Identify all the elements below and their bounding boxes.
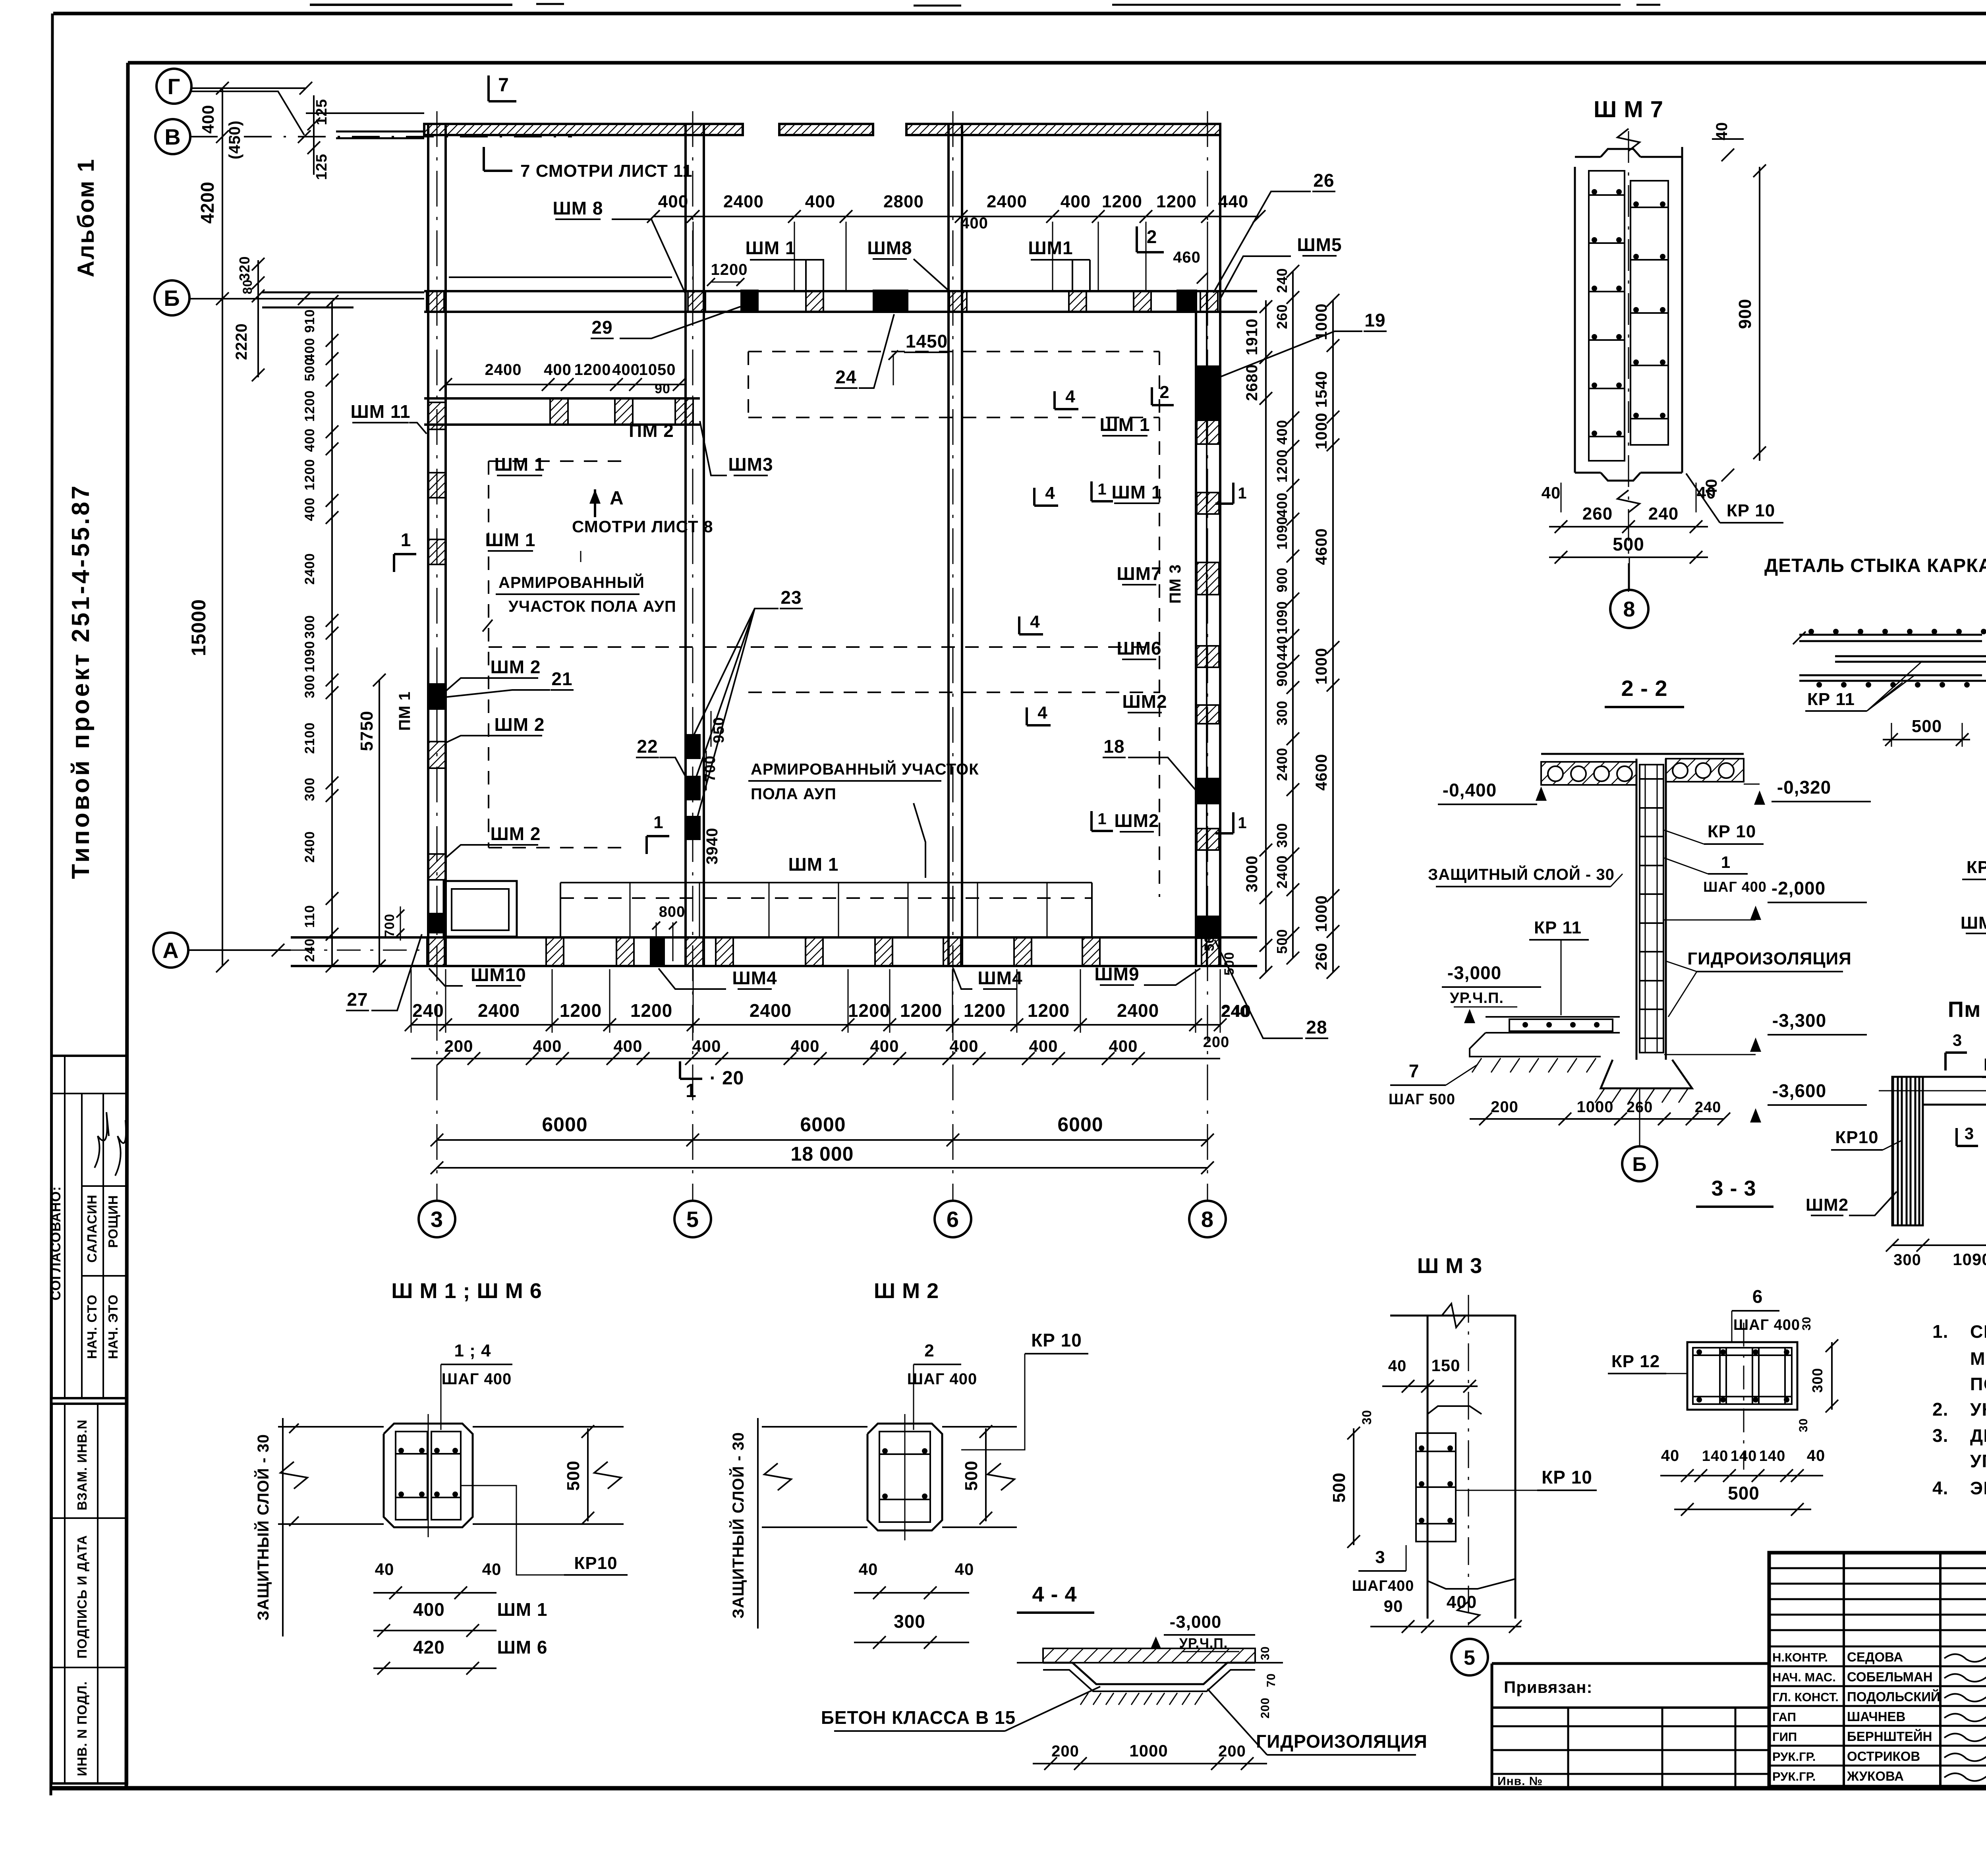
svg-text:1090: 1090 [1274,601,1290,634]
plan: wall axis 8 [1195,291,1197,966]
detail PM1: U-shape [1892,1077,1923,1225]
svg-text:2400: 2400 [1274,855,1290,889]
svg-text:1: 1 [686,1080,697,1101]
section 2-2: axis circle B [1622,1146,1657,1181]
svg-text:460: 460 [1173,249,1201,266]
svg-text:ШАГ 500: ШАГ 500 [1389,1091,1455,1108]
svg-text:ШМ3: ШМ3 [728,454,773,475]
plan: mid wall PM2 [424,397,700,400]
svg-text:1910: 1910 [1243,319,1261,355]
svg-text:1090: 1090 [1274,516,1290,550]
svg-text:300: 300 [1893,1251,1921,1269]
plan: wall axis 3 [427,124,429,966]
svg-text:125: 125 [313,154,330,180]
left dim 4200/400 [222,88,223,299]
svg-text:1200: 1200 [1274,449,1290,483]
svg-text:1200: 1200 [574,361,611,379]
plan axis circles left [156,69,191,104]
svg-text:910: 910 [302,309,317,333]
svg-text:ШМ6: ШМ6 [1117,638,1161,659]
svg-text:1: 1 [1238,485,1247,502]
section 2-2: bottom dims [1470,1118,1724,1120]
svg-text:Ш М 2: Ш М 2 [874,1279,939,1303]
plan: hatch blocks on B wall [427,291,444,312]
svg-text:Н.КОНТР.: Н.КОНТР. [1772,1650,1828,1664]
detail ShM7: right dim 900 + 40s [1759,167,1760,461]
right dim col 2 [1292,271,1294,958]
svg-text:1200: 1200 [1102,192,1142,211]
svg-text:500: 500 [1613,534,1644,554]
svg-text:1200: 1200 [1028,1000,1070,1021]
svg-text:40: 40 [375,1560,394,1578]
svg-text:260: 260 [1313,943,1330,970]
svg-text:7: 7 [498,75,509,96]
svg-text:500: 500 [302,357,317,381]
svg-text:30: 30 [1797,1418,1810,1432]
detail 3-3 cut: rebar rect [1687,1342,1797,1410]
svg-text:1000: 1000 [1313,648,1330,685]
svg-text:500: 500 [962,1461,981,1491]
svg-text:Б: Б [1632,1153,1647,1175]
svg-text:900: 900 [1274,567,1290,592]
svg-text:2220: 2220 [233,323,250,360]
svg-text:ВЗАМ. ИНВ.N: ВЗАМ. ИНВ.N [75,1419,89,1510]
svg-text:1 ; 4: 1 ; 4 [454,1341,491,1360]
svg-text:В: В [164,124,181,149]
svg-text:260: 260 [1274,304,1290,329]
svg-text:2800: 2800 [883,192,924,211]
svg-text:ПМ 2: ПМ 2 [629,420,674,441]
svg-text:Типовой проект 251-4-55.87: Типовой проект 251-4-55.87 [67,483,95,879]
svg-text:ПОЛА АУП: ПОЛА АУП [751,785,837,803]
svg-text:900: 900 [1274,661,1290,686]
svg-text:КР 10: КР 10 [1727,501,1775,520]
svg-text:Ш М 7: Ш М 7 [1594,97,1663,122]
svg-text:5: 5 [686,1207,699,1232]
approval signatures [95,1112,109,1168]
svg-text:1050: 1050 [639,361,676,379]
svg-text:80: 80 [240,279,255,294]
svg-text:150: 150 [1431,1356,1460,1375]
svg-text:А: А [162,938,179,963]
svg-text:НАЧ. МАС.: НАЧ. МАС. [1772,1670,1836,1684]
plan: hatch blocks on mid wall [550,398,568,425]
svg-text:200: 200 [1491,1098,1518,1116]
svg-text:УГОЛКОМ НА ВСЮ ВЫСОТУ , ПО: УГОЛКОМ НА ВСЮ ВЫСОТУ , ПО ДЕТАЛИ „А’ НА… [1970,1451,1986,1471]
svg-text:СМОТРИ ЛИСТ 8: СМОТРИ ЛИСТ 8 [572,517,713,536]
svg-text:ШАГ 400: ШАГ 400 [1703,879,1767,895]
svg-text:-3,600: -3,600 [1772,1080,1826,1101]
svg-text:6000: 6000 [1057,1113,1103,1136]
svg-text:6: 6 [1752,1286,1763,1307]
plan: blocks on axis8 wall [1197,365,1219,421]
svg-text:22: 22 [637,736,658,757]
svg-text:КР 11: КР 11 [1534,918,1582,937]
svg-text:2400: 2400 [750,1000,792,1021]
svg-text:1200: 1200 [302,459,317,491]
left dim 15000 [222,299,223,966]
svg-text:ШМ 1: ШМ 1 [1112,482,1162,502]
svg-text:КР 10: КР 10 [1542,1467,1592,1488]
svg-text:ГАП: ГАП [1772,1710,1796,1724]
svg-text:ШМ 6: ШМ 6 [497,1637,548,1658]
plan: B wall left stub [262,292,424,294]
title block outer [1769,1553,1986,1787]
svg-text:300: 300 [302,674,317,698]
svg-text:400: 400 [805,192,835,211]
svg-text:1000: 1000 [1313,413,1330,450]
svg-text:Альбом 1: Альбом 1 [73,158,99,277]
svg-text:ШМ2: ШМ2 [1114,810,1159,831]
svg-text:18: 18 [1103,736,1124,757]
svg-text:400: 400 [949,1037,978,1055]
plan: blocks on A wall [427,937,444,966]
svg-text:Инв. №: Инв. № [1497,1775,1543,1788]
section 4 marks [1053,391,1056,409]
plan: axis B line [189,298,424,299]
svg-text:ПМ 3: ПМ 3 [1167,564,1184,603]
svg-text:15000: 15000 [187,599,210,656]
top dim under B wall left [446,384,686,385]
svg-text:1200: 1200 [630,1000,672,1021]
svg-text:400: 400 [199,104,217,133]
svg-text:1: 1 [1097,810,1107,828]
svg-text:40: 40 [1542,483,1561,502]
svg-text:ШМ10: ШМ10 [471,964,526,985]
svg-text:-0,400: -0,400 [1443,780,1497,800]
title block left column grid [1843,1553,1845,1787]
svg-text:200: 200 [1218,1743,1246,1760]
svg-text:400: 400 [1061,192,1091,211]
svg-text:200: 200 [1051,1743,1079,1760]
svg-text:Ш М 3: Ш М 3 [1417,1254,1482,1278]
svg-text:ШАГ 400: ШАГ 400 [442,1370,512,1388]
svg-text:5: 5 [1464,1646,1476,1669]
svg-text:400: 400 [1029,1037,1058,1055]
svg-text:ШМ 1: ШМ 1 [495,454,545,475]
svg-text:ШМ9: ШМ9 [1094,964,1139,984]
svg-text:СЕДОВА: СЕДОВА [1847,1650,1903,1664]
bottom section mark 1 and 20 [679,1061,681,1079]
svg-text:30: 30 [1259,1646,1272,1660]
svg-text:900: 900 [1735,299,1755,329]
svg-text:260: 260 [1582,504,1613,524]
svg-text:1000: 1000 [1129,1741,1168,1760]
svg-text:400: 400 [1274,492,1290,517]
plan: V wall left stub [336,131,424,133]
drawing frame [128,61,1986,65]
svg-text:6000: 6000 [800,1113,846,1136]
svg-text:ШМ 1: ШМ 1 [497,1599,548,1620]
svg-text:28: 28 [1306,1017,1327,1037]
svg-text:НАЧ. СТО: НАЧ. СТО [85,1294,99,1359]
svg-text:ШМ2: ШМ2 [1122,691,1167,712]
svg-text:26: 26 [1313,170,1334,191]
svg-text:240: 240 [1274,268,1290,293]
svg-text:1000: 1000 [1313,895,1330,932]
svg-text:ИНВ. N ПОДЛ.: ИНВ. N ПОДЛ. [75,1681,89,1776]
svg-text:400: 400 [613,1037,642,1055]
label 7 smotri list 11 [483,147,485,171]
plan: dashed AUP region upper [748,351,1159,352]
svg-text:2400: 2400 [987,192,1027,211]
plan: wall axis 5 [684,124,687,966]
svg-text:ШАГ 400: ШАГ 400 [907,1370,978,1388]
svg-text:400: 400 [413,1599,445,1620]
svg-text:21: 21 [551,668,572,689]
svg-text:23: 23 [780,587,802,608]
svg-text:700: 700 [702,755,719,782]
svg-text:27: 27 [347,989,368,1010]
svg-text:КР 10: КР 10 [1708,822,1756,841]
svg-text:УР.Ч.П.: УР.Ч.П. [1450,990,1504,1007]
svg-text:ГИП: ГИП [1772,1730,1797,1744]
svg-text:800: 800 [659,904,685,920]
svg-text:40: 40 [1807,1447,1826,1464]
svg-text:2400: 2400 [302,553,317,585]
svg-text:40: 40 [1661,1447,1680,1464]
svg-text:4 - 4: 4 - 4 [1032,1582,1077,1606]
svg-text:РУК.ГР.: РУК.ГР. [1772,1750,1816,1764]
svg-text:90: 90 [655,381,670,396]
svg-text:40: 40 [1388,1357,1407,1375]
svg-text:2.: 2. [1932,1399,1948,1420]
svg-text:ЗАЩИТНЫЙ СЛОЙ - 30: ЗАЩИТНЫЙ СЛОЙ - 30 [729,1432,747,1619]
svg-text:2: 2 [1159,383,1169,402]
archive table (vzam inv / podpis i data / inv n podl) [52,1404,127,1783]
svg-text:1: 1 [401,529,411,550]
detail 4-4: floor slab [1043,1648,1255,1663]
svg-text:420: 420 [413,1637,445,1658]
detail ShM3: dim 500 left [1353,1428,1354,1545]
svg-text:1: 1 [1238,814,1247,832]
svg-text:30: 30 [1800,1316,1813,1330]
svg-text:30: 30 [1360,1410,1374,1425]
section mark 2 mid [1151,387,1153,405]
svg-text:8: 8 [1201,1207,1214,1232]
svg-text:400: 400 [302,497,317,521]
svg-text:300: 300 [302,615,317,639]
detail ShM7: axis circle 8 [1610,590,1648,628]
dim row 2 (200/400 series) [411,1058,1220,1059]
svg-text:ЭКСПЛИКАЦИЯ ОТВЕРСТИЙ ДАНА: ЭКСПЛИКАЦИЯ ОТВЕРСТИЙ ДАНА НА ЛИ:ТЕ 7. [1970,1478,1986,1498]
svg-text:СОГЛАСОВАНО:: СОГЛАСОВАНО: [48,1186,64,1300]
dim row 3 (6000s) [437,1139,1207,1141]
svg-text:ШМ8: ШМ8 [1961,913,1986,933]
section 2-2: top slab hatched [1541,753,1744,755]
svg-text:1200: 1200 [711,261,748,278]
svg-text:40: 40 [1697,483,1716,502]
svg-text:240: 240 [1648,504,1679,524]
svg-text:4: 4 [1030,612,1040,632]
svg-text:А: А [610,488,624,509]
svg-text:4: 4 [1037,703,1047,723]
svg-text:ШМ 11: ШМ 11 [351,401,411,422]
plan: axis V line [190,136,572,137]
label 1 ShM1 1 row [1090,481,1093,501]
svg-text:400: 400 [790,1037,819,1055]
detail styka: bars [1799,634,1982,636]
svg-text:24: 24 [835,367,856,387]
svg-text:АРМИРОВАННЫЙ УЧАСТОК: АРМИРОВАННЫЙ УЧАСТОК [751,760,979,778]
right dim col 1 [1265,300,1267,972]
svg-text:300: 300 [894,1611,925,1632]
plan: axis A line [188,949,291,951]
svg-text:1000: 1000 [1577,1098,1614,1116]
label 1 ShM2 1 row2 [1090,811,1093,831]
detail PM1: bottom dim [1892,1244,1986,1246]
svg-text:АРМИРОВАННЫЙ: АРМИРОВАННЫЙ [498,573,645,591]
svg-text:8: 8 [1623,597,1635,621]
svg-text:300: 300 [1809,1368,1826,1393]
top dim row above B wall [653,216,1259,217]
svg-text:КР10: КР10 [1835,1128,1878,1147]
svg-text:3 - 3: 3 - 3 [1711,1177,1756,1200]
svg-text:240: 240 [1695,1099,1721,1116]
svg-text:300: 300 [1274,700,1290,725]
svg-text:САЛАСИН: САЛАСИН [85,1194,99,1263]
plan: top wall (axis V) hatched segments [424,124,743,135]
svg-text:Пм 1: Пм 1 [1948,997,1986,1022]
plan: A wall [291,936,1257,939]
svg-text:440: 440 [1218,192,1248,211]
right dim col 3 [1332,300,1334,972]
svg-text:4: 4 [1065,387,1075,406]
svg-text:БЕРНШТЕЙН: БЕРНШТЕЙН [1847,1729,1932,1744]
svg-text:5750: 5750 [357,711,377,751]
svg-text:1: 1 [1097,481,1107,498]
svg-text:18 000: 18 000 [791,1143,854,1165]
svg-text:ДЕТАЛЬ СТЫКА КАРКАСОВ АУП: ДЕТАЛЬ СТЫКА КАРКАСОВ АУП [1764,555,1986,576]
svg-text:1.: 1. [1932,1321,1948,1342]
svg-text:-0,320: -0,320 [1777,777,1831,798]
svg-text:2: 2 [924,1341,934,1360]
svg-text:1200: 1200 [900,1000,942,1021]
svg-text:УЧАСТОК ПОЛА АУП: УЧАСТОК ПОЛА АУП [508,598,676,615]
svg-text:400: 400 [544,361,572,379]
svg-text:ШАГ400: ШАГ400 [1352,1578,1414,1594]
svg-text:140: 140 [1702,1448,1728,1464]
svg-text:ЗАЩИТНЫЙ СЛОЙ - 30: ЗАЩИТНЫЙ СЛОЙ - 30 [254,1434,272,1621]
svg-text:90: 90 [1384,1597,1403,1615]
svg-text:3: 3 [1375,1548,1385,1567]
section mark 1 mid [645,836,648,854]
svg-text:40: 40 [482,1560,502,1578]
svg-text:4.: 4. [1932,1478,1948,1498]
plan: black monolith blocks on B wall [740,290,759,313]
svg-text:ПОЛА СМОТРИ НА ЛИСТЕ 13.: ПОЛА СМОТРИ НА ЛИСТЕ 13. [1970,1374,1986,1394]
svg-text:ШМ 8: ШМ 8 [553,198,603,218]
svg-text:КР 11: КР 11 [1807,690,1855,709]
dim row 1 (2400/1200 series) [411,1024,1220,1026]
svg-text:700: 700 [382,914,397,937]
svg-text:7: 7 [1409,1061,1420,1081]
svg-text:1200: 1200 [302,390,317,422]
detail ShM1;ShM6: dim 500 right [587,1428,589,1521]
svg-text:240: 240 [302,938,317,962]
svg-text:ЗАЩИТНЫЙ СЛОЙ - 30: ЗАЩИТНЫЙ СЛОЙ - 30 [1428,865,1615,883]
plan: blocks on axis3 wall [428,683,446,710]
svg-text:3: 3 [1965,1124,1974,1143]
plan: B wall [424,290,1257,292]
svg-text:НАЧ. ЭТО: НАЧ. ЭТО [106,1294,120,1359]
svg-text:2400: 2400 [302,831,317,863]
svg-text:2: 2 [1147,226,1157,247]
svg-text:4: 4 [1045,483,1055,503]
svg-text:3.: 3. [1932,1425,1948,1446]
svg-text:ШМ8: ШМ8 [867,238,912,258]
plan: blocks on axis5 wall [685,734,701,759]
svg-text:400: 400 [1274,419,1290,444]
svg-text:1: 1 [1721,853,1731,871]
svg-text:Г: Г [168,74,181,99]
svg-text:240: 240 [1221,1003,1249,1020]
svg-text:ЖУКОВА: ЖУКОВА [1847,1769,1904,1783]
svg-text:400: 400 [612,361,640,379]
svg-text:500: 500 [1912,717,1942,736]
detail ShM3: vertical wall band [1427,1315,1429,1619]
detail styka: dim 500 [1883,739,1970,740]
svg-text:400: 400 [1109,1037,1138,1055]
svg-text:-3,000: -3,000 [1447,962,1501,983]
svg-text:Привязан:: Привязан: [1504,1678,1592,1696]
detail ShM1;ShM6: section [384,1424,473,1527]
svg-text:300: 300 [302,777,317,801]
section 2-2: floor left [1486,1016,1620,1018]
svg-text:200: 200 [1259,1697,1272,1718]
approval table SOGLASOVANO [52,1056,127,1398]
svg-text:320: 320 [236,256,253,281]
svg-text:ГЛ. КОНСТ.: ГЛ. КОНСТ. [1772,1690,1839,1704]
left dims 320/80/2220 [257,260,259,377]
svg-text:500: 500 [1329,1472,1349,1503]
svg-text:РОЩИН: РОЩИН [106,1195,120,1248]
svg-text:УКАЗАНИЯ ПО ГИДРОИЗОЛЯЦИИ: УКАЗАНИЯ ПО ГИДРОИЗОЛЯЦИИ СМОТРИ НА ЛИСТ… [1970,1399,1986,1420]
section mark 7 top [487,75,490,101]
svg-text:ДВЕРНЫЕ ПРОЕМЫ В МОНОЛИТ: ДВЕРНЫЕ ПРОЕМЫ В МОНОЛИТНОМ БЕТОНЕ ОБРАМ… [1970,1426,1986,1446]
extension lines below A wall [411,969,412,1033]
svg-text:2100: 2100 [302,722,317,754]
svg-text:ШМ 1: ШМ 1 [1100,414,1150,435]
svg-text:300: 300 [1274,823,1290,848]
section 2-2: column [1636,759,1638,1060]
svg-text:500: 500 [1274,929,1290,954]
svg-text:560: 560 [1202,927,1217,951]
svg-text:140: 140 [1731,1448,1757,1464]
svg-text:240: 240 [412,1000,444,1021]
svg-text:3: 3 [1953,1031,1962,1049]
section mark 2 top [1136,226,1138,252]
svg-text:ШМ4: ШМ4 [732,968,777,988]
svg-text:ШМ 1: ШМ 1 [485,529,536,550]
svg-text:-3,300: -3,300 [1772,1010,1826,1031]
svg-text:Б: Б [164,286,180,311]
svg-text:ШАЧНЕВ: ШАЧНЕВ [1847,1709,1905,1724]
left dim 5750 [379,680,380,966]
svg-text:3000: 3000 [1243,856,1261,893]
svg-text:950: 950 [711,717,727,743]
svg-text:70: 70 [1265,1673,1278,1687]
detail ShM2: dim 500 [985,1428,987,1521]
detail 4-4: bottom dims [1033,1763,1267,1764]
svg-text:1: 1 [653,813,663,832]
plan: wall axis 6 [947,124,950,966]
svg-text:40: 40 [955,1560,974,1578]
svg-text:2400: 2400 [485,361,522,379]
svg-text:140: 140 [1759,1448,1785,1464]
svg-text:КР 12: КР 12 [1984,1055,1986,1074]
svg-text:БЕТОН КЛАССА В 15: БЕТОН КЛАССА В 15 [821,1707,1016,1728]
